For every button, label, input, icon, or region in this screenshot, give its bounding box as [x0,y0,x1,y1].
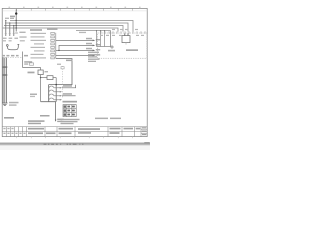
field device stub [125,43,127,45]
ground labels [9,102,19,106]
bus N [3,28,118,32]
title block texts [28,127,146,135]
terminal block X1 [30,28,58,59]
control branch wire down [22,52,24,68]
wire label on drop [66,60,73,62]
supply label [10,16,15,18]
aux branch wire [41,77,47,79]
fuse labels [3,32,27,42]
cable arrow end [55,120,57,122]
plug out wire b [62,95,76,97]
plug contact 3 [49,94,54,98]
drop wire to plug [49,59,72,85]
title block row marks [3,128,25,134]
wire tag marks [2,66,7,68]
plug contact 2 [49,90,54,94]
node w2-w3 [58,50,59,51]
cable slack loop [6,45,8,47]
control branch wire across [23,67,41,69]
bottom ruler column ticks [17,137,133,139]
terminal strip row [101,31,145,34]
viewer toolbar icons [44,143,84,145]
left stub wire 3 [13,26,15,37]
X1 header label [30,29,42,31]
annotation above title block left [4,117,45,124]
control branch wire down to coil [40,68,42,102]
top ruler band line [2,10,147,12]
plug side labels [30,94,37,96]
field enclosure dashed box [98,33,148,58]
legend table [63,105,76,117]
supply node [15,12,17,14]
legend table title [63,101,78,103]
wire run w4 [56,55,94,57]
right bus drop 2 [100,31,102,47]
annotation above title block right [95,118,121,120]
right bus drop 3 [104,31,106,47]
cable type label [108,50,115,52]
plug connector body [48,85,50,102]
wire run w2 [59,45,94,50]
bus L1 [10,21,133,32]
coil K1 [38,70,43,75]
supply drop wire [15,9,17,31]
plug out wire a [62,85,76,88]
sheet frame [2,8,147,136]
bus L3 [4,26,123,32]
left stub wire 1 [5,21,7,37]
ground symbol [2,103,8,105]
bus L2 [5,23,128,32]
X1 terminal pins [51,32,55,59]
zone tag label [57,64,61,65]
motor group label glyphs [24,61,32,65]
collector wire [97,46,111,48]
bottom bracket wire [41,102,56,121]
plug labels [63,85,72,95]
aux contact branch node [40,77,41,78]
phase conductor run 3 [6,58,8,104]
viewer bottom bar [0,141,150,144]
plug contact 4 [49,98,54,102]
dashed separator [3,57,23,59]
top ruler column ticks [17,8,133,10]
collector connector [111,46,113,48]
legend caption [61,119,80,124]
title block [2,127,147,137]
stub top label [5,18,9,19]
fuse tick F3 [13,33,15,35]
sub-bus wire [76,31,111,47]
terminal strip labels [100,29,144,36]
aux to connector wire [55,78,57,85]
field device box [122,36,130,43]
cable pair wire a [124,33,126,35]
zone tag box [61,67,64,69]
sub-bus label [79,32,86,33]
wire arrows [93,40,96,57]
aux branch wire 2 [53,77,56,79]
phase conductor run 2 [4,58,6,104]
phase conductor run 1 [2,58,4,104]
plug node [55,84,57,86]
fuse tick F2 [9,33,11,35]
X1 pin rail [55,33,57,59]
wire run w3 [56,49,94,51]
wire run w1 [56,39,94,41]
wire destination labels [86,38,100,56]
right drop nodes [96,30,105,31]
aux device box [47,76,53,80]
viewer right control [144,142,149,143]
fuse tick F1 [5,33,7,35]
right bus drop 1 [96,31,98,47]
junction dots on buses [16,20,17,29]
plug contact 1 [49,86,54,90]
cable labels [40,115,64,122]
cable pair wire b [127,33,129,35]
coil label [28,72,35,74]
top ruler column numbers [9,7,141,9]
field device label [126,49,138,51]
cable notes block [88,52,100,62]
stub junction dots [5,20,14,26]
left stub wire 2 [9,23,11,36]
X1 row labels [31,33,47,59]
loop end tick [17,43,19,45]
wire-number label row [2,55,28,57]
zone boundary dashed [61,66,63,98]
